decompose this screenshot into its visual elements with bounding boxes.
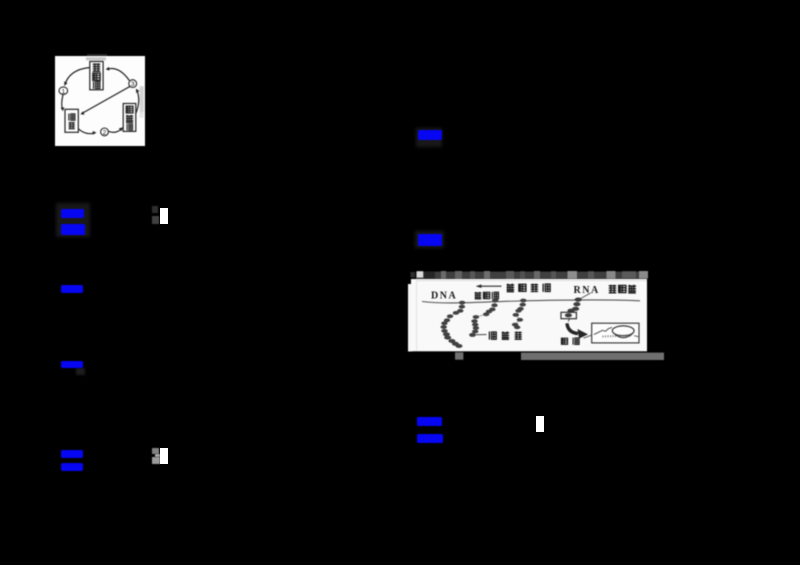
polysome chain 2 xyxy=(469,299,498,337)
arrow gland to 2 xyxy=(78,129,94,134)
svg-text:DNA: DNA xyxy=(431,291,457,302)
polysome chain 1 xyxy=(441,301,466,348)
equation bit 1 xyxy=(152,206,158,214)
white bar right xyxy=(536,416,544,432)
blue answer 2 (left) xyxy=(61,285,84,293)
circled 1 xyxy=(59,87,68,95)
blue answer 5 (right top) xyxy=(416,128,442,147)
多肽 label xyxy=(561,338,567,344)
scan white background xyxy=(55,56,145,146)
connector RNA pol label to bead xyxy=(578,293,591,300)
box 甲状腺 xyxy=(123,104,136,132)
translation diagram (scan) xyxy=(408,271,664,361)
cut-off text row below scan xyxy=(455,352,463,359)
inset box xyxy=(592,323,639,343)
DNA template strand line xyxy=(422,300,640,303)
hormone feedback diagram (scan) xyxy=(55,56,145,146)
RNA polymerase chain xyxy=(561,298,582,322)
box 下丘脑 xyxy=(90,62,103,90)
blue answer pair 1 (left) xyxy=(56,203,90,237)
svg-text:3: 3 xyxy=(131,81,135,88)
arrow 3 to hypothalamus xyxy=(107,68,130,80)
arrow thyroid to 3 xyxy=(136,90,139,114)
box 腺体 xyxy=(65,109,78,132)
transcription direction arrow xyxy=(477,285,502,287)
equation bit 2 xyxy=(152,448,159,454)
line to inset xyxy=(584,334,595,338)
blue answer pair 7 (right bottom) xyxy=(417,417,441,426)
cut-off text row strip above scan xyxy=(411,272,416,278)
scan body xyxy=(408,284,412,352)
arrow 2 to thyroid xyxy=(108,128,122,133)
svg-text:2: 2 xyxy=(103,130,107,137)
arrow 1 to gland xyxy=(62,95,63,109)
blue answer 6 (right) xyxy=(415,231,444,248)
svg-text:1: 1 xyxy=(61,88,65,95)
转录方向 label xyxy=(507,284,515,292)
straight arrow 3 to gland xyxy=(82,86,131,113)
ribosome label xyxy=(476,334,487,336)
blue answer 3 (left) xyxy=(61,361,84,369)
faint strip above hormone diagram xyxy=(87,54,107,57)
circled 3 xyxy=(129,80,137,88)
circled 2 xyxy=(101,128,109,136)
blue answer pair 4 (left bottom) xyxy=(61,450,83,458)
faint smudge under answer2 xyxy=(76,368,85,375)
thick arrow to inset xyxy=(567,323,578,333)
arrow hypothalamus to 1 xyxy=(65,68,90,86)
svg-text:RNA: RNA xyxy=(574,285,600,296)
polysome chain 3 xyxy=(512,299,527,330)
